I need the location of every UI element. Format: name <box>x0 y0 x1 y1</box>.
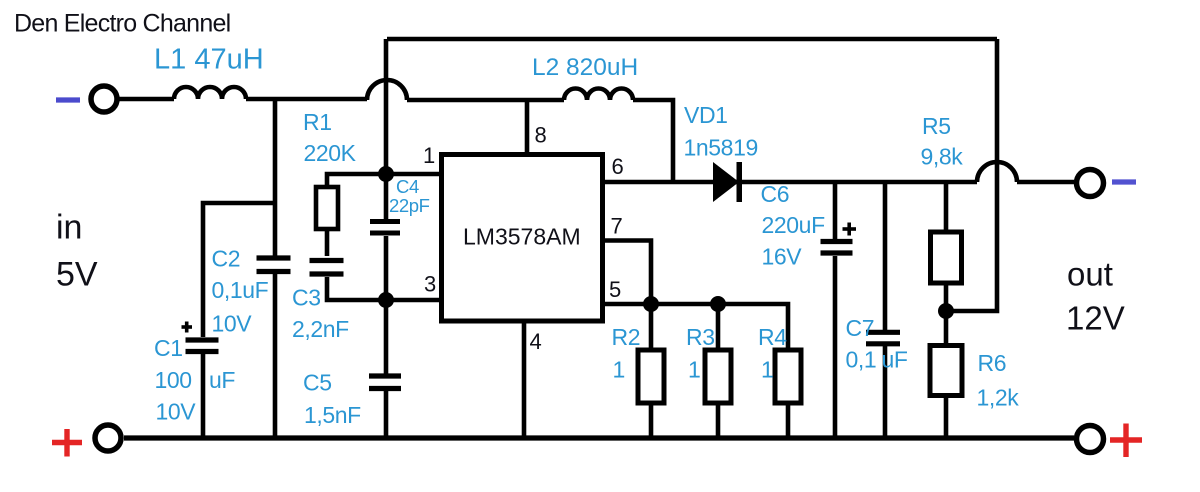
capacitor C4 plates <box>370 222 400 234</box>
node pin3 junction dot <box>378 292 394 308</box>
svg-text:C5: C5 <box>303 370 332 396</box>
minus sign input <box>56 97 80 102</box>
inductor L1 <box>174 87 246 99</box>
svg-text:9,8k: 9,8k <box>921 144 964 170</box>
wire R3 stub <box>716 304 721 350</box>
svg-text:C6: C6 <box>761 181 790 207</box>
wire R1 top to pin 1 <box>327 174 441 188</box>
wire R1 bottom to C3 <box>325 229 330 256</box>
svg-text:L1 47uH: L1 47uH <box>154 44 264 76</box>
output terminal top <box>1077 170 1104 197</box>
resistor R5 <box>931 232 962 283</box>
output terminal bottom <box>1077 426 1104 453</box>
svg-text:3: 3 <box>424 272 436 297</box>
svg-text:L2 820uH: L2 820uH <box>532 54 638 81</box>
wire C5 to bottom rail <box>384 391 389 438</box>
capacitor C6 plus mark <box>843 223 857 236</box>
svg-text:R5: R5 <box>922 113 951 139</box>
svg-text:1: 1 <box>613 357 625 383</box>
inductor L2 <box>564 89 633 101</box>
svg-text:1,5nF: 1,5nF <box>304 402 361 428</box>
svg-text:C1: C1 <box>154 335 183 361</box>
resistor R6 <box>930 346 962 396</box>
wire C1 to bottom rail <box>201 354 206 438</box>
plus sign input (red) <box>52 429 82 457</box>
wire R2 stub <box>649 304 654 350</box>
wire C7 to bottom rail <box>883 346 888 438</box>
wire bottom rail <box>124 435 1074 440</box>
svg-text:C4: C4 <box>396 176 419 197</box>
svg-text:R6: R6 <box>978 350 1007 376</box>
wire hop to output terminal <box>1017 180 1074 185</box>
wire pin 7 to pin5 node <box>604 241 651 305</box>
capacitor C3 plates <box>310 261 344 275</box>
wire C4 to pin3 node <box>384 236 389 300</box>
wire R4 to bottom rail <box>786 403 791 438</box>
wire branch to C1 <box>203 203 275 337</box>
svg-text:in: in <box>56 209 82 247</box>
wire top feedback rail <box>387 37 997 42</box>
svg-text:7: 7 <box>611 214 623 239</box>
wire R3 to bottom rail <box>716 403 721 438</box>
svg-text:1: 1 <box>688 357 700 383</box>
svg-text:0,1: 0,1 <box>846 347 877 373</box>
wire pin3 node to IC <box>386 298 441 303</box>
svg-text:12V: 12V <box>1066 300 1125 337</box>
svg-text:R1: R1 <box>303 109 332 135</box>
svg-text:5: 5 <box>609 277 621 302</box>
capacitor C1 plus mark <box>182 322 193 333</box>
resistor R4 <box>775 350 801 403</box>
minus sign output <box>1112 179 1136 184</box>
wire vertical x=386 top rail down through hop to C4 <box>384 39 389 219</box>
resistor R2 <box>638 350 664 403</box>
svg-text:1: 1 <box>423 143 435 168</box>
wire R6 to bottom rail <box>944 396 949 439</box>
wire right feedback vertical x=997 down to R5/R6 node <box>946 39 997 311</box>
op-amp U1 LM3578AM body <box>442 155 603 322</box>
plus sign output (red) <box>1110 424 1142 458</box>
svg-text:R4: R4 <box>758 324 787 350</box>
svg-text:R3: R3 <box>686 324 715 350</box>
svg-text:8: 8 <box>535 123 547 148</box>
svg-text:LM3578AM: LM3578AM <box>463 224 581 250</box>
resistor R1 <box>316 187 338 229</box>
svg-text:out: out <box>1067 256 1113 293</box>
wire L1 to hop, passes node at x=275 <box>246 97 367 102</box>
capacitor C2 plates <box>257 258 291 272</box>
node pin5/R2 junction dot <box>643 296 659 312</box>
wire hop to L2 <box>407 98 564 103</box>
svg-text:2,2nF: 2,2nF <box>292 316 349 342</box>
wire hop arc over vertical (right) <box>977 162 1017 182</box>
svg-text:5V: 5V <box>56 256 98 294</box>
svg-text:Den Electro Channel: Den Electro Channel <box>14 10 230 38</box>
svg-text:10V: 10V <box>212 311 253 337</box>
svg-text:VD1: VD1 <box>684 102 728 128</box>
input terminal top <box>91 86 117 112</box>
wire C6 to bottom rail <box>833 256 838 438</box>
wire pin 8 <box>525 100 530 154</box>
node R5/R6 junction dot <box>938 303 954 319</box>
wire C3 bottom to pin 3 <box>327 277 386 300</box>
wire pin 5 rail to R4 <box>604 304 788 350</box>
wire pin3 node down to C5 <box>384 300 389 374</box>
wire R5 top stub <box>944 182 949 232</box>
capacitor C1 plates <box>186 340 219 352</box>
svg-text:22pF: 22pF <box>389 195 430 216</box>
svg-text:1,2k: 1,2k <box>977 385 1020 411</box>
svg-text:100: 100 <box>155 367 192 393</box>
svg-text:0,1uF: 0,1uF <box>212 277 269 303</box>
svg-text:220K: 220K <box>304 140 357 166</box>
resistor R3 <box>705 350 731 403</box>
wire C7 branch <box>883 182 888 330</box>
svg-text:10V: 10V <box>156 399 197 425</box>
svg-text:uF: uF <box>882 347 908 373</box>
wire input terminal to L1 <box>118 97 174 102</box>
input terminal bottom <box>95 425 121 451</box>
svg-text:1: 1 <box>761 357 773 383</box>
diode VD1 <box>713 162 742 202</box>
svg-text:6: 6 <box>612 154 624 179</box>
capacitor C7 plates <box>866 332 900 344</box>
node R3 junction dot <box>710 296 726 312</box>
svg-text:C3: C3 <box>292 285 321 311</box>
wire pin6 to output hop <box>604 180 977 185</box>
capacitor C5 plates <box>369 376 401 389</box>
wire node to R6 <box>944 311 949 346</box>
svg-text:R2: R2 <box>612 324 641 350</box>
node pin1 junction dot <box>378 166 394 182</box>
svg-text:16V: 16V <box>762 244 803 270</box>
svg-text:uF: uF <box>209 367 235 393</box>
svg-text:220uF: 220uF <box>762 212 826 238</box>
capacitor C6 plates <box>821 242 853 254</box>
svg-text:C7: C7 <box>846 315 875 341</box>
wire C6 branch <box>833 182 838 239</box>
wire C2 to bottom rail <box>273 274 278 438</box>
wire pin 4 to bottom rail <box>522 321 527 438</box>
svg-text:4: 4 <box>530 329 542 354</box>
wire R5 bottom to node <box>944 283 949 311</box>
wire input branch x=275 down to C2 <box>273 100 278 256</box>
wire hop arc over vertical (left) <box>367 80 407 100</box>
svg-text:C2: C2 <box>212 246 241 272</box>
svg-text:1n5819: 1n5819 <box>684 135 758 161</box>
wire R2 to bottom rail <box>649 403 654 438</box>
wire L2 to diode line corner <box>633 100 673 180</box>
